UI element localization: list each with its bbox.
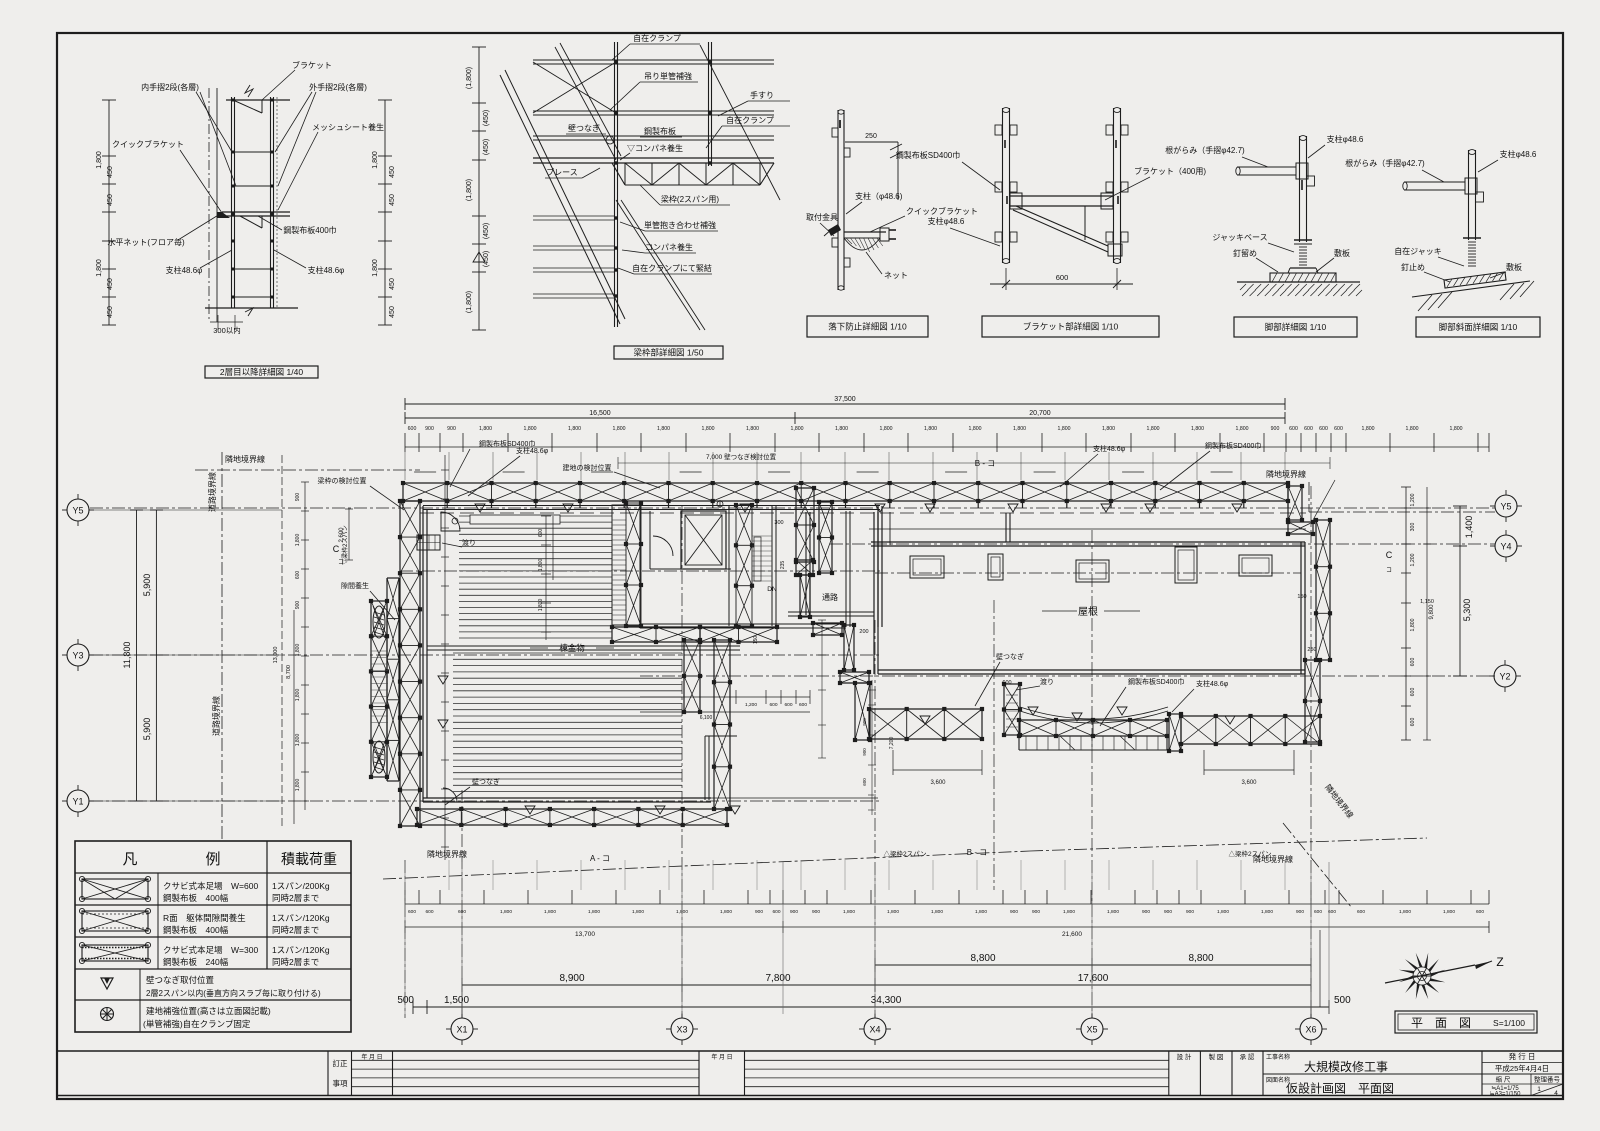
svg-text:ネット: ネット	[884, 271, 908, 280]
svg-text:単管抱き合わせ補強: 単管抱き合わせ補強	[644, 220, 716, 230]
svg-text:(450): (450)	[483, 110, 490, 126]
svg-text:600: 600	[862, 778, 867, 786]
svg-text:1,800: 1,800	[1236, 426, 1249, 432]
svg-text:支柱48.6φ: 支柱48.6φ	[1196, 679, 1229, 688]
svg-text:支柱48.6φ: 支柱48.6φ	[166, 265, 203, 275]
svg-text:外手摺2段(各層): 外手摺2段(各層)	[309, 82, 367, 92]
svg-text:製 図: 製 図	[1209, 1052, 1224, 1061]
svg-text:X1: X1	[456, 1025, 467, 1035]
svg-text:5,300: 5,300	[1462, 599, 1472, 622]
svg-text:Y2: Y2	[1499, 672, 1510, 682]
svg-text:(450): (450)	[483, 251, 490, 267]
svg-text:鋼製布板SD400巾: 鋼製布板SD400巾	[896, 150, 960, 160]
svg-text:1,800: 1,800	[1013, 426, 1026, 432]
svg-text:根がらみ（手摺φ42.7): 根がらみ（手摺φ42.7)	[1345, 158, 1425, 168]
svg-text:承 認: 承 認	[1240, 1052, 1255, 1061]
svg-text:B - コ: B - コ	[975, 459, 995, 468]
svg-text:鋼製布板SD400巾: 鋼製布板SD400巾	[1128, 677, 1184, 686]
svg-text:13,700: 13,700	[575, 931, 595, 938]
svg-text:クイックブラケット: クイックブラケット	[112, 139, 184, 149]
svg-text:X5: X5	[1086, 1025, 1097, 1035]
svg-text:A - コ: A - コ	[590, 854, 610, 863]
svg-text:8,800: 8,800	[970, 953, 995, 964]
svg-text:1,800: 1,800	[1107, 909, 1119, 915]
svg-text:道路境界線: 道路境界線	[207, 472, 217, 512]
svg-text:手すり: 手すり	[750, 90, 774, 100]
svg-text:ブラケット（400用): ブラケット（400用)	[1134, 166, 1206, 176]
svg-text:同時2層まで: 同時2層まで	[272, 893, 319, 903]
svg-text:900: 900	[755, 909, 763, 915]
svg-text:支柱φ48.6: 支柱φ48.6	[928, 216, 965, 226]
svg-text:面: 面	[1435, 1016, 1447, 1030]
svg-text:900: 900	[862, 748, 867, 756]
svg-text:渡り: 渡り	[1040, 677, 1054, 686]
svg-text:図: 図	[1459, 1016, 1471, 1030]
svg-text:1,800: 1,800	[500, 909, 512, 915]
svg-text:450: 450	[389, 278, 396, 290]
svg-text:平: 平	[1411, 1016, 1423, 1030]
svg-text:900: 900	[295, 601, 301, 610]
svg-text:1,800: 1,800	[880, 426, 893, 432]
svg-text:600: 600	[769, 702, 777, 708]
svg-text:600: 600	[1304, 426, 1313, 432]
svg-text:通路: 通路	[822, 592, 838, 602]
svg-text:5,900: 5,900	[142, 574, 152, 597]
svg-text:壁つなぎ: 壁つなぎ	[472, 777, 500, 786]
svg-text:1,800: 1,800	[835, 426, 848, 432]
svg-text:600: 600	[295, 571, 301, 580]
svg-text:1: 1	[1537, 1086, 1541, 1093]
svg-text:1,200: 1,200	[1410, 553, 1416, 566]
svg-text:▽コンパネ養生: ▽コンパネ養生	[627, 143, 683, 153]
svg-text:600: 600	[1410, 688, 1416, 697]
svg-text:B - コ: B - コ	[967, 848, 987, 857]
svg-text:C: C	[333, 544, 340, 554]
svg-text:(1,800): (1,800)	[466, 67, 473, 89]
svg-text:1,800: 1,800	[702, 426, 715, 432]
svg-text:DN: DN	[767, 586, 777, 593]
svg-text:900: 900	[295, 493, 301, 502]
svg-text:建地補強位置(高さは立面図記載): 建地補強位置(高さは立面図記載)	[146, 1006, 271, 1016]
svg-text:クサビ式本足場 W=300: クサビ式本足場 W=300	[163, 945, 258, 955]
svg-text:900: 900	[790, 909, 798, 915]
svg-text:7,200: 7,200	[889, 737, 895, 750]
svg-text:900: 900	[1010, 909, 1018, 915]
svg-text:クイックブラケット: クイックブラケット	[906, 206, 978, 216]
svg-text:1,800: 1,800	[544, 909, 556, 915]
svg-text:梁枠(2スパン用): 梁枠(2スパン用)	[661, 194, 720, 204]
svg-text:△梁枠2スパン: △梁枠2スパン	[1229, 849, 1272, 858]
svg-text:根がらみ（手摺φ42.7): 根がらみ（手摺φ42.7)	[1165, 145, 1245, 155]
svg-text:600: 600	[1410, 718, 1416, 727]
svg-text:1,800: 1,800	[720, 909, 732, 915]
svg-text:クサビ式本足場 W=600: クサビ式本足場 W=600	[163, 881, 258, 891]
svg-text:大規模改修工事: 大規模改修工事	[1304, 1059, 1388, 1074]
svg-text:21,600: 21,600	[1062, 931, 1082, 938]
svg-text:隣地境界線: 隣地境界線	[225, 454, 265, 464]
svg-text:鋼製布板400巾: 鋼製布板400巾	[283, 225, 336, 235]
svg-text:600: 600	[772, 909, 780, 915]
svg-text:(450): (450)	[483, 139, 490, 155]
svg-text:Y4: Y4	[1500, 542, 1511, 552]
svg-text:同時2層まで: 同時2層まで	[272, 925, 319, 935]
svg-text:1,800: 1,800	[568, 426, 581, 432]
svg-text:1,800: 1,800	[975, 909, 987, 915]
svg-text:250: 250	[1307, 647, 1316, 653]
svg-text:梁枠の検討位置: 梁枠の検討位置	[318, 476, 367, 485]
svg-text:支柱φ48.6: 支柱φ48.6	[1327, 134, 1364, 144]
svg-text:ジャッキベース: ジャッキベース	[1212, 233, 1267, 242]
svg-text:道路境界線: 道路境界線	[211, 696, 221, 736]
svg-text:1,800: 1,800	[1102, 426, 1115, 432]
svg-text:20,700: 20,700	[1029, 410, 1051, 417]
svg-text:600: 600	[1056, 273, 1069, 282]
svg-text:工事名称: 工事名称	[1266, 1053, 1290, 1061]
svg-text:1,800: 1,800	[1063, 909, 1075, 915]
svg-text:仮設計画図 平面図: 仮設計画図 平面図	[1286, 1081, 1394, 1096]
svg-text:1,800: 1,800	[538, 599, 544, 612]
svg-text:1,800: 1,800	[1399, 909, 1411, 915]
svg-text:1,150: 1,150	[1420, 599, 1434, 605]
svg-text:(1,800): (1,800)	[466, 291, 473, 313]
svg-text:600: 600	[1476, 909, 1484, 915]
svg-text:600: 600	[408, 909, 416, 915]
svg-text:年 月 日: 年 月 日	[361, 1053, 382, 1061]
svg-text:5,900: 5,900	[142, 718, 152, 741]
svg-text:300以内: 300以内	[213, 325, 241, 335]
svg-text:1,800: 1,800	[372, 151, 379, 169]
svg-text:Y1: Y1	[72, 797, 83, 807]
svg-text:鋼製布板: 鋼製布板	[644, 126, 676, 136]
svg-text:▽梁枠2スパン: ▽梁枠2スパン	[341, 525, 349, 565]
svg-text:自在クランプ: 自在クランプ	[633, 33, 681, 43]
svg-text:敷板: 敷板	[1506, 262, 1522, 272]
svg-text:1,800: 1,800	[843, 909, 855, 915]
svg-text:1,800: 1,800	[96, 259, 103, 277]
svg-text:1,800: 1,800	[1147, 426, 1160, 432]
svg-text:1,800: 1,800	[931, 909, 943, 915]
svg-text:1,800: 1,800	[372, 259, 379, 277]
svg-text:3,600: 3,600	[930, 780, 946, 786]
svg-text:150: 150	[1297, 594, 1306, 600]
svg-text:X6: X6	[1305, 1025, 1316, 1035]
svg-text:Y3: Y3	[72, 651, 83, 661]
svg-text:1,800: 1,800	[632, 909, 644, 915]
svg-text:37,500: 37,500	[834, 396, 856, 403]
svg-text:脚部斜面詳細図 1/10: 脚部斜面詳細図 1/10	[1439, 322, 1518, 332]
svg-text:自在クランプにて緊結: 自在クランプにて緊結	[632, 263, 712, 273]
svg-text:1,800: 1,800	[657, 426, 670, 432]
svg-text:900: 900	[1142, 909, 1150, 915]
svg-text:1,800: 1,800	[588, 909, 600, 915]
svg-text:1,500: 1,500	[444, 995, 469, 1006]
svg-text:1,800: 1,800	[1362, 426, 1375, 432]
svg-text:1,800: 1,800	[295, 689, 301, 702]
svg-text:600: 600	[799, 702, 807, 708]
svg-text:500: 500	[397, 995, 414, 1006]
svg-text:450: 450	[107, 278, 114, 290]
svg-text:150: 150	[753, 636, 759, 645]
svg-text:鋼製布板 400幅: 鋼製布板 400幅	[163, 893, 229, 903]
svg-text:ブラケット部詳細図 1/10: ブラケット部詳細図 1/10	[1023, 322, 1119, 332]
svg-text:1スパン/120Kg: 1スパン/120Kg	[272, 945, 330, 955]
svg-text:900: 900	[1186, 909, 1194, 915]
svg-text:設 計: 設 計	[1177, 1052, 1192, 1061]
svg-text:脚部詳細図 1/10: 脚部詳細図 1/10	[1265, 322, 1327, 332]
svg-text:7,800: 7,800	[765, 973, 790, 984]
svg-text:△梁枠2スパン: △梁枠2スパン	[884, 849, 927, 858]
svg-text:ブレース: ブレース	[546, 167, 578, 177]
svg-text:900: 900	[1271, 426, 1280, 432]
svg-text:600: 600	[1357, 909, 1365, 915]
svg-text:900: 900	[425, 426, 434, 432]
svg-text:自在ジャッキ: 自在ジャッキ	[1394, 246, 1442, 256]
svg-text:900: 900	[1296, 909, 1304, 915]
svg-text:600: 600	[1289, 426, 1298, 432]
svg-text:隙間養生: 隙間養生	[341, 581, 369, 590]
svg-text:2層目以降詳細図 1/40: 2層目以降詳細図 1/40	[220, 367, 303, 377]
svg-text:平成25年4月4日: 平成25年4月4日	[1495, 1063, 1549, 1073]
svg-text:500: 500	[1334, 995, 1351, 1006]
svg-text:1,800: 1,800	[1261, 909, 1273, 915]
svg-text:ブラケット: ブラケット	[292, 60, 332, 70]
svg-text:7,000 壁つなぎ検討位置: 7,000 壁つなぎ検討位置	[706, 452, 777, 461]
svg-text:自在クランプ: 自在クランプ	[726, 115, 774, 125]
svg-text:300: 300	[774, 520, 783, 526]
svg-text:200: 200	[859, 629, 868, 635]
svg-text:コ: コ	[1386, 567, 1392, 574]
svg-text:鋼製布板SD400巾: 鋼製布板SD400巾	[479, 439, 535, 448]
svg-text:1,800: 1,800	[1406, 426, 1419, 432]
svg-text:(1,800): (1,800)	[466, 179, 473, 201]
svg-text:9,800: 9,800	[1429, 604, 1435, 620]
svg-text:1,800: 1,800	[887, 909, 899, 915]
svg-text:事項: 事項	[333, 1078, 348, 1088]
svg-text:積載荷重: 積載荷重	[281, 851, 337, 867]
svg-text:釘留め: 釘留め	[1233, 248, 1257, 258]
svg-text:支柱48.6φ: 支柱48.6φ	[1093, 444, 1126, 453]
svg-text:≒A3=1/150: ≒A3=1/150	[1490, 1091, 1522, 1097]
svg-text:34,300: 34,300	[871, 995, 902, 1006]
svg-text:1,800: 1,800	[924, 426, 937, 432]
svg-text:1,200: 1,200	[745, 702, 757, 708]
svg-text:支柱48.6φ: 支柱48.6φ	[308, 265, 345, 275]
svg-text:1スパン/200Kg: 1スパン/200Kg	[272, 881, 330, 891]
svg-text:梁枠部詳細図 1/50: 梁枠部詳細図 1/50	[634, 348, 704, 358]
svg-text:取付金具: 取付金具	[806, 212, 838, 222]
svg-text:900: 900	[812, 909, 820, 915]
svg-text:メッシュシート養生: メッシュシート養生	[312, 122, 384, 132]
svg-text:600: 600	[408, 426, 417, 432]
svg-text:水平ネット(フロア毎): 水平ネット(フロア毎)	[107, 237, 185, 247]
svg-text:年 月 日: 年 月 日	[711, 1053, 732, 1061]
svg-text:450: 450	[107, 306, 114, 318]
svg-text:吊り単管補強: 吊り単管補強	[644, 71, 692, 81]
svg-text:1,800: 1,800	[1450, 426, 1463, 432]
svg-text:1,800: 1,800	[969, 426, 982, 432]
svg-text:2層2スパン以内(垂直方向スラブ毎に取り付ける): 2層2スパン以内(垂直方向スラブ毎に取り付ける)	[146, 988, 321, 998]
svg-text:棟金物: 棟金物	[559, 643, 585, 653]
svg-text:(単管補強)自在クランプ固定: (単管補強)自在クランプ固定	[143, 1019, 251, 1029]
svg-text:Y5: Y5	[72, 506, 83, 516]
svg-text:300: 300	[1410, 523, 1416, 532]
svg-text:支柱（φ48.6): 支柱（φ48.6)	[855, 191, 903, 201]
svg-text:1,800: 1,800	[295, 534, 301, 547]
svg-text:支柱φ48.6: 支柱φ48.6	[1500, 149, 1537, 159]
svg-text:屋根: 屋根	[1078, 605, 1098, 618]
svg-text:R面 躯体間隙間養生: R面 躯体間隙間養生	[163, 913, 246, 923]
svg-text:鋼製布板SD400巾: 鋼製布板SD400巾	[1205, 441, 1261, 450]
svg-text:600: 600	[538, 529, 544, 538]
svg-text:支柱48.6φ: 支柱48.6φ	[516, 446, 549, 455]
svg-text:600: 600	[1410, 658, 1416, 667]
svg-text:S=1/100: S=1/100	[1493, 1018, 1525, 1028]
svg-text:900: 900	[862, 718, 867, 726]
svg-text:1スパン/120Kg: 1スパン/120Kg	[272, 913, 330, 923]
svg-text:6,100: 6,100	[700, 715, 713, 721]
svg-text:1,800: 1,800	[538, 559, 544, 572]
svg-text:1,800: 1,800	[1443, 909, 1455, 915]
svg-text:16,500: 16,500	[589, 410, 611, 417]
svg-text:隣地境界線: 隣地境界線	[427, 849, 467, 859]
svg-text:450: 450	[389, 194, 396, 206]
svg-text:訂正: 訂正	[333, 1058, 348, 1068]
svg-text:Y5: Y5	[1500, 502, 1511, 512]
svg-text:建地の検討位置: 建地の検討位置	[563, 463, 612, 472]
svg-text:縮 尺: 縮 尺	[1496, 1075, 1511, 1084]
svg-text:壁つなぎ: 壁つなぎ	[568, 123, 600, 133]
svg-text:渡り: 渡り	[462, 538, 476, 547]
svg-text:Z: Z	[1496, 955, 1503, 969]
svg-text:鋼製布板 240幅: 鋼製布板 240幅	[163, 957, 229, 967]
svg-text:隣地境界線: 隣地境界線	[1266, 469, 1306, 479]
svg-text:釘止め: 釘止め	[1401, 262, 1425, 272]
svg-text:1,800: 1,800	[295, 644, 301, 657]
svg-text:コンパネ養生: コンパネ養生	[645, 242, 693, 252]
svg-text:敷板: 敷板	[1334, 248, 1350, 258]
svg-text:落下防止詳細図 1/10: 落下防止詳細図 1/10	[828, 322, 907, 332]
svg-text:1,800: 1,800	[295, 734, 301, 747]
svg-text:1,800: 1,800	[613, 426, 626, 432]
svg-text:8,700: 8,700	[286, 665, 292, 679]
svg-text:450: 450	[389, 166, 396, 178]
svg-text:1,800: 1,800	[791, 426, 804, 432]
svg-text:発 行 日: 発 行 日	[1509, 1051, 1536, 1061]
svg-text:600: 600	[1314, 909, 1322, 915]
svg-text:壁つなぎ取付位置: 壁つなぎ取付位置	[146, 975, 215, 985]
svg-text:同時2層まで: 同時2層まで	[272, 957, 319, 967]
svg-text:235: 235	[780, 561, 786, 570]
svg-text:1,800: 1,800	[1191, 426, 1204, 432]
svg-text:鋼製布板 400幅: 鋼製布板 400幅	[163, 925, 229, 935]
svg-text:1,800: 1,800	[1217, 909, 1229, 915]
svg-text:8,800: 8,800	[1188, 953, 1213, 964]
svg-text:17,600: 17,600	[1078, 973, 1109, 984]
svg-text:3,600: 3,600	[1241, 780, 1257, 786]
svg-text:整理番号: 整理番号	[1534, 1075, 1561, 1084]
svg-text:内手摺2段(各層): 内手摺2段(各層)	[141, 82, 199, 92]
svg-text:900: 900	[1164, 909, 1172, 915]
svg-text:凡: 凡	[122, 851, 137, 868]
svg-text:900: 900	[1032, 909, 1040, 915]
svg-text:600: 600	[425, 909, 433, 915]
svg-text:C: C	[1386, 550, 1393, 560]
svg-text:600: 600	[1002, 680, 1011, 686]
svg-text:1,800: 1,800	[746, 426, 759, 432]
svg-text:1,200: 1,200	[1410, 493, 1416, 506]
svg-text:900: 900	[447, 426, 456, 432]
svg-text:1,800: 1,800	[524, 426, 537, 432]
svg-text:1,800: 1,800	[479, 426, 492, 432]
svg-text:8,900: 8,900	[559, 973, 584, 984]
svg-text:(450): (450)	[483, 223, 490, 239]
svg-text:X4: X4	[869, 1025, 880, 1035]
svg-text:例: 例	[205, 851, 220, 868]
svg-text:450: 450	[107, 194, 114, 206]
svg-text:250: 250	[865, 133, 877, 140]
svg-text:4: 4	[1554, 1090, 1558, 1097]
svg-text:1,400: 1,400	[1464, 516, 1474, 539]
svg-text:1,800: 1,800	[295, 779, 301, 792]
svg-text:壁つなぎ: 壁つなぎ	[996, 652, 1024, 661]
svg-text:1,800: 1,800	[1058, 426, 1071, 432]
svg-text:450: 450	[389, 306, 396, 318]
svg-text:450: 450	[107, 166, 114, 178]
svg-text:600: 600	[1319, 426, 1328, 432]
svg-text:1,800: 1,800	[96, 151, 103, 169]
svg-text:1,800: 1,800	[1410, 618, 1416, 631]
svg-text:600: 600	[1334, 426, 1343, 432]
svg-text:X3: X3	[676, 1025, 687, 1035]
svg-text:600: 600	[784, 702, 792, 708]
